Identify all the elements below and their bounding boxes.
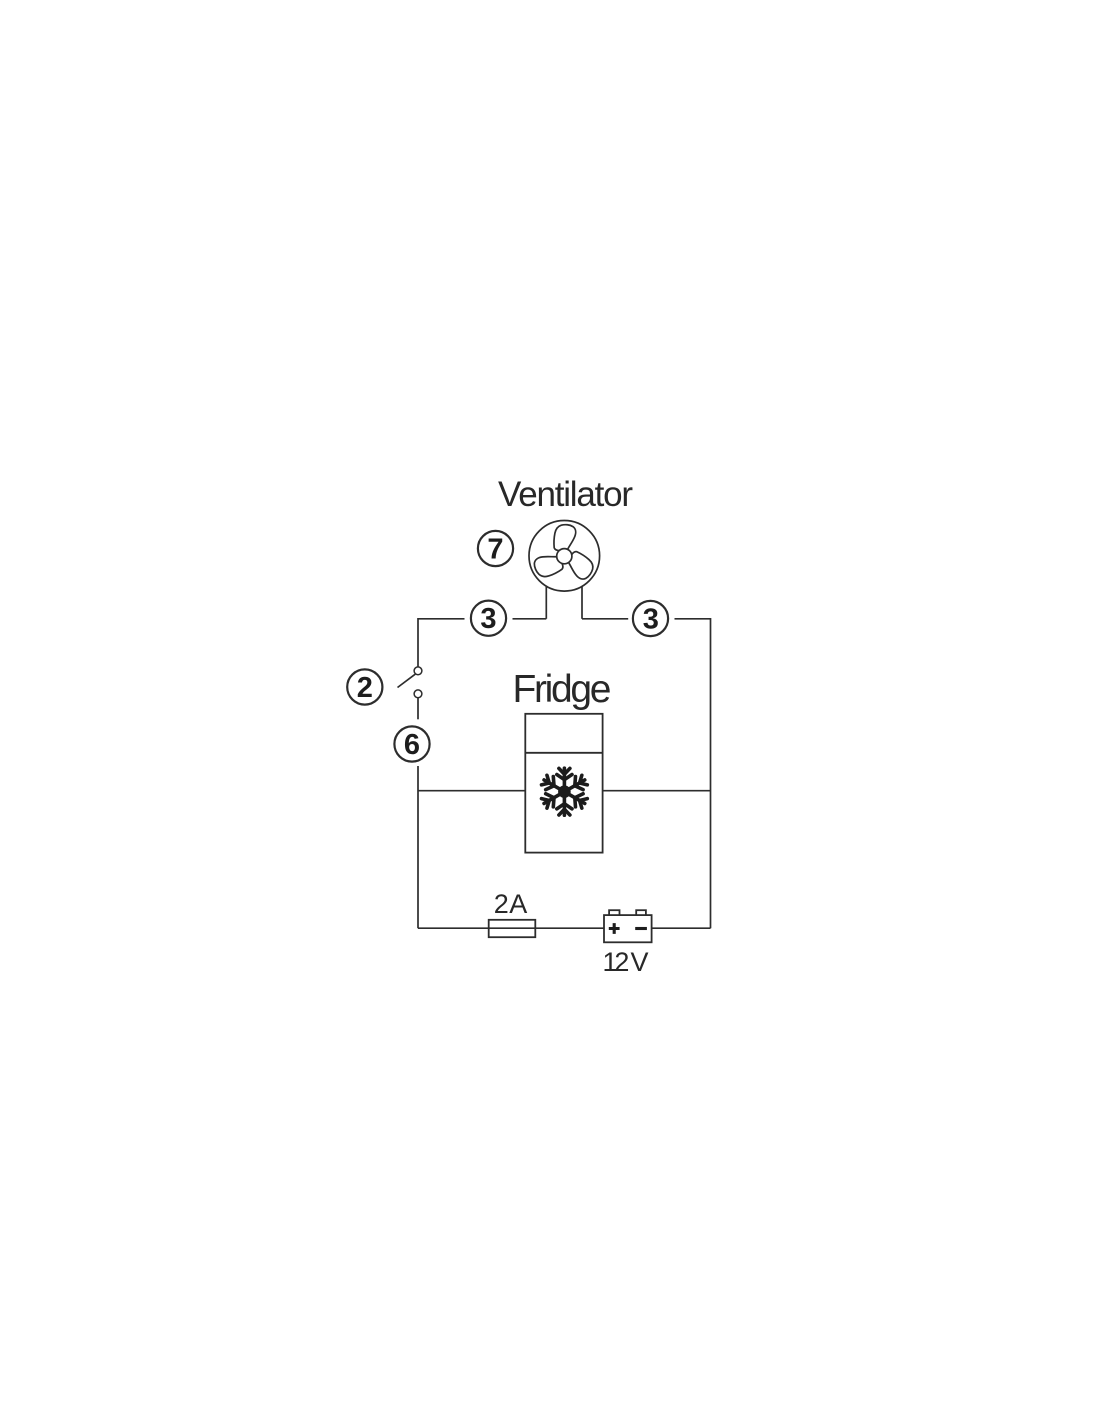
svg-text:7: 7 xyxy=(487,534,503,566)
svg-text:Ventilator: Ventilator xyxy=(498,475,633,514)
svg-text:2A: 2A xyxy=(494,889,528,919)
svg-text:12 V: 12 V xyxy=(603,947,649,977)
svg-text:3: 3 xyxy=(643,603,659,635)
svg-text:6: 6 xyxy=(404,729,420,761)
svg-text:2: 2 xyxy=(357,672,373,704)
svg-text:Fridge: Fridge xyxy=(513,668,612,711)
svg-text:3: 3 xyxy=(480,603,496,635)
